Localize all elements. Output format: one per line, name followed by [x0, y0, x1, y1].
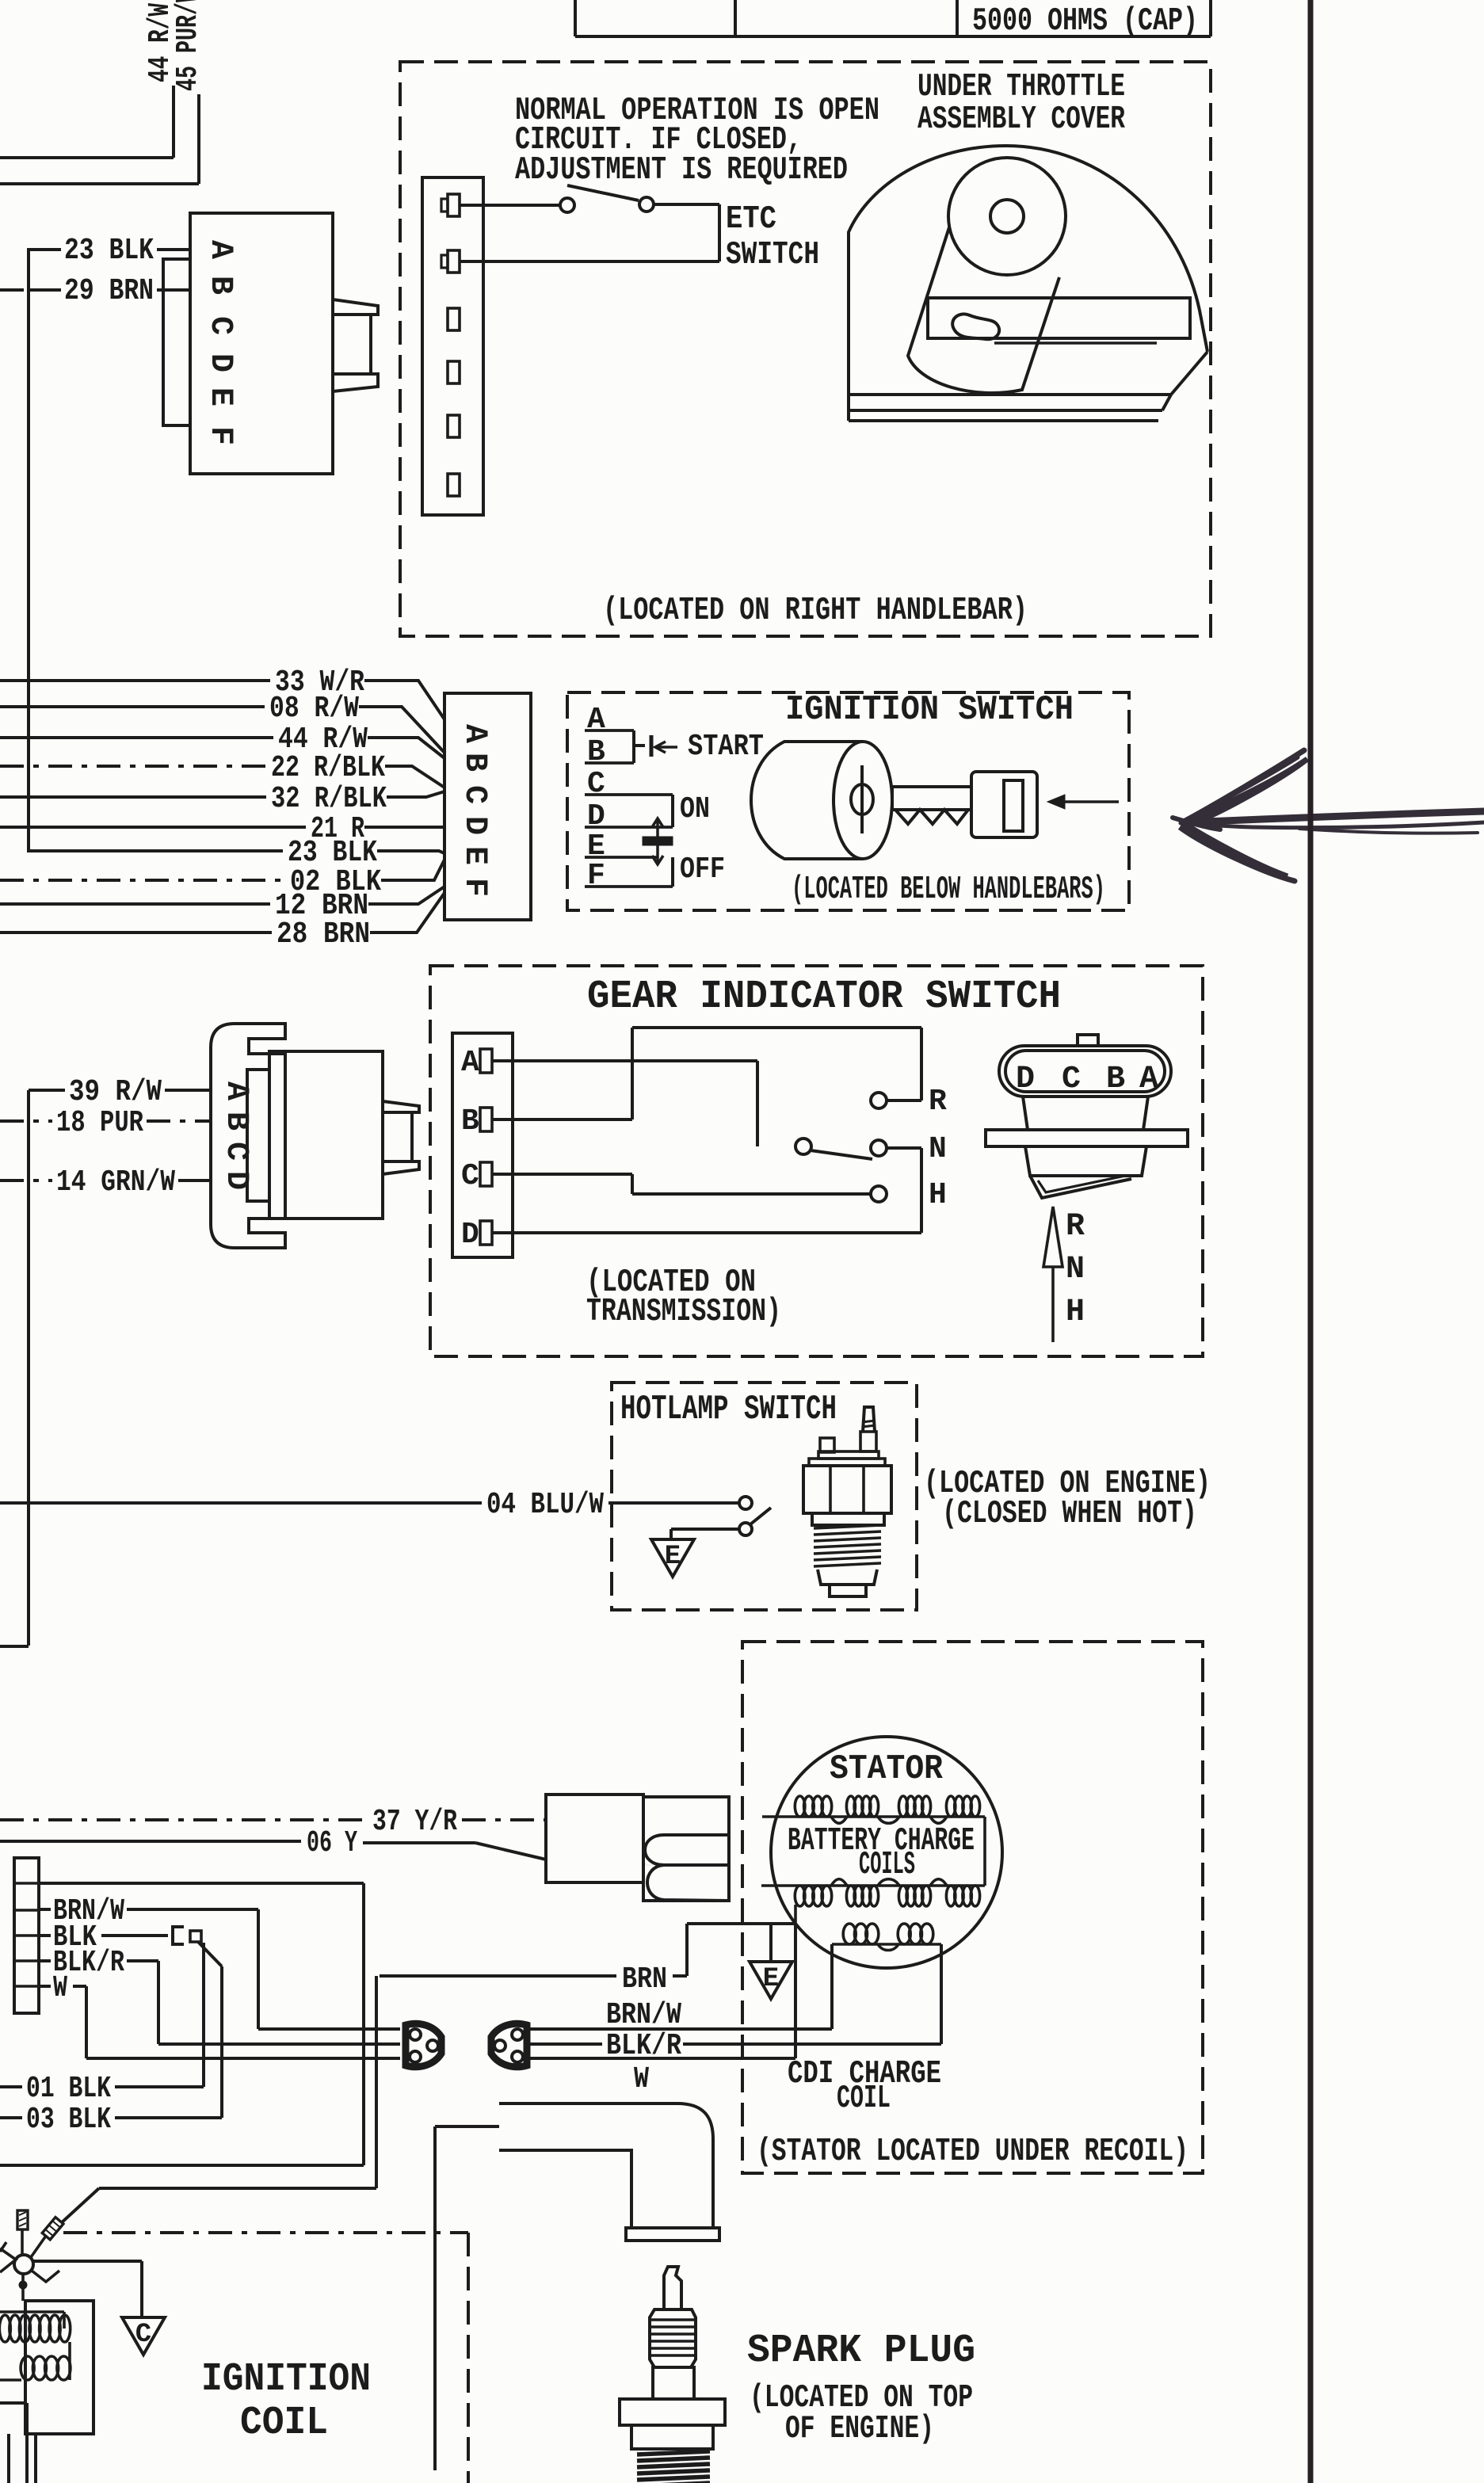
bullet upper	[645, 1835, 729, 1865]
wire N contact	[887, 1146, 921, 1150]
svg-text:B: B	[1106, 1062, 1125, 1097]
svg-text:03 BLK: 03 BLK	[26, 2103, 111, 2137]
dashed vertical boundary	[467, 2233, 470, 2483]
wire gear C vertical	[631, 1174, 634, 1194]
svg-text:18 PUR: 18 PUR	[56, 1106, 143, 1140]
svg-text:A: A	[1139, 1062, 1158, 1097]
svg-text:C: C	[461, 1159, 479, 1193]
connector J1 latch (right)	[333, 299, 378, 315]
spark plug hex	[620, 2399, 725, 2425]
3-pin connector right (thick outline)	[491, 2023, 527, 2066]
throttle slot rectangle	[928, 298, 1190, 338]
table column divider 2	[734, 0, 737, 36]
ignition contact D underline	[585, 826, 673, 829]
wire 12 BRN from left edge	[0, 902, 270, 906]
svg-text:B: B	[456, 753, 492, 772]
svg-text:SWITCH: SWITCH	[726, 237, 819, 273]
ETC switch contact circle right	[639, 197, 654, 212]
wire 29 BRN dash-dot from left edge	[0, 288, 29, 292]
ETC connector pin 4	[448, 361, 460, 383]
page edge vertical line	[1308, 0, 1314, 2483]
svg-text:04 BLU/W: 04 BLU/W	[486, 1488, 604, 1522]
gear pin C	[480, 1162, 492, 1186]
wire 03 BLK horizontal	[115, 2116, 222, 2119]
wire ETC pin1 to switch	[460, 204, 561, 207]
wire W vertical (stator)	[794, 1924, 797, 2058]
wire 06 Y slant	[475, 1843, 546, 1859]
hotlamp contact upper circle	[739, 1497, 752, 1509]
wire 32 R/BLK from left edge	[0, 795, 266, 799]
wire gear C	[492, 1173, 632, 1176]
wire gear B vertical up	[631, 1028, 634, 1119]
ETC connector pin 3	[448, 308, 460, 330]
gear connector latch	[383, 1101, 419, 1112]
gear switch pin box	[452, 1033, 513, 1257]
svg-text:37 Y/R: 37 Y/R	[372, 1805, 457, 1839]
svg-text:UNDER THROTTLE: UNDER THROTTLE	[917, 69, 1125, 105]
wire BRN/W to connector	[258, 2027, 400, 2031]
gear pin B	[480, 1108, 492, 1131]
wire BRN lower horizontal	[99, 2187, 376, 2190]
hotlamp switch blade	[750, 1508, 771, 1524]
svg-text:D: D	[1016, 1062, 1035, 1097]
sensor lower taper	[818, 1570, 877, 1585]
connector J2 body (ignition switch)	[444, 693, 531, 920]
svg-text:22 R/BLK: 22 R/BLK	[271, 751, 385, 785]
wire gear C to H	[632, 1192, 870, 1196]
wire W to stator	[527, 2057, 795, 2060]
svg-text:OF ENGINE): OF ENGINE)	[785, 2411, 934, 2447]
wire 03 BLK stub	[0, 2116, 22, 2119]
ETC switch dashed enclosure	[400, 62, 1211, 636]
wire 08 R/W from left edge	[0, 705, 265, 708]
hotlamp contact lower circle	[739, 1523, 752, 1535]
gear sensor flange	[986, 1130, 1188, 1146]
gear connector outer body	[211, 1024, 285, 1248]
gear sensor tip	[1030, 1176, 1131, 1198]
wire 32 R/BLK into connector J2	[387, 791, 444, 797]
wire 21 R into connector J2	[364, 826, 444, 829]
throttle assembly cover drawing (dome)	[849, 146, 1207, 421]
wire 44 R/W into connector J2	[368, 738, 444, 758]
ground E (hotlamp)	[651, 1539, 694, 1577]
wire 03 BLK vertical	[220, 1966, 223, 2118]
wire 28 BRN from left edge	[0, 931, 272, 934]
wire 01 BLK stub	[0, 2085, 22, 2088]
svg-text:B: B	[461, 1104, 479, 1139]
wire BRN horizontal	[380, 1974, 616, 1978]
svg-text:R: R	[929, 1085, 947, 1119]
svg-text:ADJUSTMENT IS REQUIRED: ADJUSTMENT IS REQUIRED	[515, 152, 848, 189]
throttle lever blob	[952, 314, 999, 339]
wire BRN/W horizontal	[127, 1908, 258, 1911]
winding link vertical 1	[68, 2342, 71, 2380]
cluster stub left	[0, 2242, 6, 2252]
bullet lower divider	[647, 1865, 729, 1901]
svg-text:06 Y: 06 Y	[307, 1826, 357, 1860]
svg-text:ON: ON	[680, 792, 710, 826]
key position toggle arrow	[656, 819, 659, 864]
ON bracket	[671, 795, 674, 827]
svg-text:45 PUR/W: 45 PUR/W	[171, 0, 205, 91]
svg-text:E: E	[763, 1964, 779, 1994]
wire 04 BLU/W into box	[608, 1501, 738, 1505]
loop right vertical	[362, 1883, 365, 2165]
svg-text:H: H	[929, 1178, 947, 1212]
wire BLK/R pin stub	[39, 1959, 51, 1962]
ignition coil HT cluster	[14, 2255, 33, 2274]
cluster line up	[21, 2229, 24, 2255]
ground E (stator)	[750, 1962, 792, 1999]
wire coil to ground C	[33, 2260, 142, 2263]
spark plug threads	[637, 2451, 710, 2454]
wire BRN slant to coil	[61, 2188, 99, 2223]
svg-text:5000 OHMS (CAP): 5000 OHMS (CAP)	[972, 3, 1198, 40]
svg-text:ETC: ETC	[726, 201, 776, 238]
table column divider 1 (top resistance table, cropped)	[574, 0, 577, 36]
wire ETC loop vertical	[718, 204, 721, 261]
wire BLK to inline connector	[101, 1934, 168, 1937]
svg-text:D: D	[456, 816, 492, 835]
wire gear B	[492, 1118, 632, 1121]
gear sensor oval outer	[999, 1046, 1171, 1097]
wire 29 BRN stub	[29, 288, 61, 292]
svg-text:(LOCATED BELOW HANDLEBARS): (LOCATED BELOW HANDLEBARS)	[792, 872, 1105, 908]
svg-text:01 BLK: 01 BLK	[26, 2072, 111, 2106]
gear contact R circle	[871, 1093, 887, 1108]
wire BLK pin stub	[39, 1934, 51, 1937]
3-pin connector left (thick outline)	[406, 2023, 441, 2066]
wire BRN down vertical	[375, 1976, 378, 2188]
stator circle	[771, 1737, 1002, 1968]
key teeth	[895, 810, 968, 824]
cluster slant line	[31, 2236, 46, 2257]
wire W to connector	[86, 2057, 400, 2060]
connector J1 mating tab (left)	[163, 259, 190, 425]
CDI coil left lead vertical	[830, 1944, 834, 2029]
gear pin A	[480, 1049, 492, 1073]
svg-text:H: H	[1066, 1295, 1085, 1330]
wire BLK/R horizontal	[127, 1959, 158, 1962]
table column divider 3	[956, 0, 959, 36]
ignition contact B underline	[585, 761, 634, 765]
harness bus vertical (23 BLK net)	[27, 248, 30, 852]
svg-text:STATOR: STATOR	[830, 1749, 944, 1789]
spark plug boot	[499, 2103, 713, 2228]
throttle base band	[849, 393, 1171, 396]
gear sensor upper body	[1023, 1097, 1148, 1130]
dash-dot boundary (CDI)	[63, 2231, 468, 2234]
wire 23 BLK left stub	[29, 248, 61, 251]
wire 33 W/R into connector J2	[364, 681, 444, 719]
wire 39 R/W to connector	[165, 1089, 211, 1092]
key shaft	[892, 787, 971, 810]
svg-text:START: START	[688, 730, 764, 764]
svg-text:COIL: COIL	[837, 2081, 891, 2117]
wire BLK/R vertical	[157, 1961, 160, 2044]
throttle pulley hub circle	[990, 200, 1024, 233]
wire 22 R/BLK from left edge	[0, 765, 266, 768]
arrow pointing at key	[1054, 800, 1119, 803]
sensor neck	[812, 1513, 884, 1525]
battery charge coils row 2	[761, 1884, 985, 1887]
wire from inline connector slant	[198, 1942, 222, 1966]
coil input wire	[21, 2274, 25, 2301]
bullet connector pair (stator leads)	[546, 1795, 643, 1882]
coil lower wire	[0, 2401, 27, 2405]
ETC switch contact circle left	[560, 198, 574, 212]
ignition coil primary winding	[0, 2310, 64, 2313]
svg-text:(STATOR LOCATED UNDER RECOIL): (STATOR LOCATED UNDER RECOIL)	[757, 2134, 1188, 2170]
ground C stem	[140, 2261, 143, 2317]
svg-text:F: F	[202, 426, 238, 445]
table right border	[1209, 0, 1212, 36]
svg-text:BRN/W: BRN/W	[606, 1998, 681, 2032]
svg-text:TRANSMISSION): TRANSMISSION)	[586, 1294, 781, 1330]
svg-text:29 BRN: 29 BRN	[64, 274, 154, 308]
svg-text:COIL: COIL	[240, 2401, 328, 2446]
svg-text:(LOCATED ON RIGHT HANDLEBAR): (LOCATED ON RIGHT HANDLEBAR)	[603, 593, 1028, 629]
wire gear D	[492, 1231, 921, 1234]
svg-text:08 R/W: 08 R/W	[269, 692, 359, 726]
wire BLK/R left part	[527, 2042, 602, 2046]
gear contact N left circle	[795, 1139, 811, 1154]
throttle pulley outer circle	[948, 158, 1066, 275]
wire 02 BLK into connector J2	[381, 860, 444, 880]
wire BRN stub to vertical	[673, 1974, 687, 1978]
HT lead vertical	[433, 2126, 437, 2470]
wire W horizontal	[73, 1985, 86, 1988]
wire R contact	[887, 1099, 921, 1102]
throttle base line upper	[994, 341, 1157, 345]
wire 23 BLK from harness bus	[29, 849, 283, 852]
sensor hex body	[803, 1466, 891, 1513]
svg-text:D: D	[202, 353, 238, 372]
svg-text:A: A	[202, 240, 238, 259]
wire 08 R/W into connector J2	[359, 707, 444, 753]
wire 14 GRN/W dash from edge	[0, 1179, 52, 1182]
svg-text:OFF: OFF	[680, 852, 725, 887]
wire 06 Y	[0, 1840, 301, 1843]
wire CDI top to loop	[39, 1882, 364, 1885]
ETC connector pin 2	[448, 250, 460, 273]
wire 23 BLK to J1 pin A	[157, 248, 190, 251]
svg-text:IGNITION: IGNITION	[201, 2357, 371, 2402]
wire BLK/R right part	[683, 2042, 941, 2046]
HT lead to boot	[435, 2125, 499, 2128]
svg-text:N: N	[1066, 1252, 1085, 1287]
svg-text:BRN: BRN	[622, 1962, 667, 1997]
gear sensor top tab	[1078, 1035, 1098, 1046]
ignition coil secondary winding	[0, 2378, 21, 2382]
wire hotlamp to ground	[671, 1528, 739, 1531]
spark plug body	[653, 2367, 694, 2399]
spark plug terminal tip	[664, 2267, 681, 2309]
table bottom border	[575, 35, 1211, 38]
wire 22 R/BLK into connector J2	[385, 766, 444, 788]
coil lead down 3	[34, 2434, 37, 2483]
gear switch blade	[811, 1150, 872, 1159]
connector J1 body (A-F)	[190, 213, 333, 474]
inline connector (BLK)	[173, 1927, 184, 1944]
wire 18 PUR dash-dot to connector	[147, 1119, 211, 1123]
gear indicator switch dashed enclosure	[430, 966, 1203, 1356]
wire 37 Y/R dash-dot	[0, 1818, 366, 1821]
sensor tip	[830, 1585, 866, 1596]
gear sensor oval inner	[1005, 1051, 1165, 1092]
ETC connector pin 5	[448, 415, 460, 437]
CDI coil right lead vertical	[940, 1944, 943, 2044]
svg-text:E: E	[665, 1542, 681, 1572]
svg-text:D: D	[461, 1218, 479, 1252]
stator dashed enclosure	[742, 1642, 1203, 2173]
svg-text:IGNITION SWITCH: IGNITION SWITCH	[785, 690, 1074, 730]
wire 45 PUR/W vertical	[197, 94, 200, 184]
gear pin D	[480, 1221, 492, 1245]
throttle cable drum (tilted cylinder)	[908, 227, 1059, 393]
wire W vertical	[85, 1986, 88, 2058]
ground C (ignition coil)	[122, 2317, 165, 2355]
wire 44 R/W from left edge	[0, 736, 273, 739]
wire gear A	[492, 1059, 757, 1062]
svg-text:E: E	[202, 387, 238, 406]
cluster V bracket	[0, 2248, 16, 2272]
ETC connector body	[422, 177, 483, 515]
svg-text:ASSEMBLY COVER: ASSEMBLY COVER	[917, 101, 1125, 138]
svg-text:GEAR INDICATOR SWITCH: GEAR INDICATOR SWITCH	[587, 975, 1061, 1020]
ETC switch blade (open)	[567, 185, 639, 200]
row2 left drop	[794, 1905, 797, 1924]
svg-text:N: N	[929, 1132, 947, 1166]
svg-text:HOTLAMP SWITCH: HOTLAMP SWITCH	[620, 1390, 837, 1429]
ground stem	[670, 1529, 673, 1539]
wire 06 Y continue	[363, 1841, 475, 1844]
key head	[971, 772, 1037, 837]
junction dot	[19, 2281, 27, 2289]
ignition contact F underline	[585, 885, 673, 888]
wire gear top horizontal	[632, 1026, 921, 1029]
wire 28 BRN into connector J2	[370, 893, 444, 933]
svg-text:A: A	[461, 1046, 479, 1080]
sensor threads	[814, 1525, 881, 1528]
wire BRN/W vertical	[257, 1909, 260, 2029]
wire W pin stub	[39, 1985, 51, 1988]
gear position arrow (R N H)	[1051, 1267, 1055, 1342]
harness bus vertical (left, lower)	[27, 1090, 30, 1646]
gear contact N right circle	[871, 1140, 887, 1156]
ground stem (stator)	[769, 1924, 773, 1962]
wire switch to right elbow	[654, 203, 719, 206]
wire BRN/W pin stub	[39, 1908, 51, 1911]
wire 29 BRN to J1 pin B	[157, 288, 190, 292]
boot base flange	[626, 2228, 719, 2241]
battery charge coils row 1	[762, 1815, 985, 1818]
ETC connector pin 1	[448, 194, 460, 216]
wire 21 R from left edge	[0, 826, 306, 829]
ignition contact A underline	[585, 729, 634, 732]
hotlamp temperature sensor	[863, 1407, 875, 1432]
svg-text:C: C	[456, 785, 492, 804]
ETC connector pin 6	[448, 474, 460, 496]
stator return wire	[687, 1922, 795, 1925]
wire BLK/R to connector	[158, 2042, 400, 2046]
wire 04 BLU/W from left edge	[0, 1501, 482, 1505]
svg-text:C: C	[1062, 1062, 1081, 1097]
wire 18 PUR dash-dot	[0, 1119, 52, 1123]
key head slot	[1004, 780, 1023, 831]
wire 02 BLK from left edge	[0, 879, 285, 882]
loop bottom horizontal	[0, 2164, 364, 2167]
ignition switch dashed enclosure	[567, 692, 1129, 910]
svg-text:23 BLK: 23 BLK	[64, 234, 154, 268]
wire gear down to R	[920, 1028, 923, 1100]
key cylinder body	[751, 742, 863, 859]
CDI charge coil	[832, 1943, 941, 1946]
hand-drawn pen arrow (annotation)	[1186, 811, 1484, 822]
ignition coil box	[25, 2301, 93, 2434]
gear connector main block	[269, 1051, 383, 1219]
wire 01 BLK horizontal	[115, 2085, 204, 2088]
wire ETC pin2 return	[460, 260, 719, 263]
svg-text:C: C	[135, 2320, 151, 2350]
START arrow	[655, 746, 677, 749]
toggle thick bar	[643, 837, 673, 845]
ignition contact E underline	[585, 856, 658, 859]
wire gear A vertical	[756, 1061, 759, 1146]
wire 12 BRN into connector J2	[368, 887, 444, 904]
gear contact H circle	[871, 1186, 887, 1202]
harness bus exit left	[0, 1645, 29, 1648]
hotlamp switch dashed enclosure	[612, 1383, 917, 1610]
svg-text:E: E	[456, 846, 492, 865]
keyhole	[851, 784, 873, 814]
wire 44 R/W vertical	[172, 86, 175, 158]
svg-text:W: W	[634, 2062, 649, 2096]
svg-text:A: A	[456, 724, 492, 743]
keyhole slot line	[860, 765, 864, 833]
gear connector middle tab	[247, 1070, 269, 1201]
wire 14 GRN/W to connector	[178, 1179, 211, 1182]
spark plug insulator ribs	[650, 2309, 696, 2367]
spark plug shell	[631, 2425, 713, 2449]
CDI module connector (left edge)	[14, 1858, 39, 2013]
svg-text:B: B	[202, 276, 238, 295]
wire N to D vertical	[920, 1148, 923, 1233]
svg-text:14 GRN/W: 14 GRN/W	[56, 1165, 175, 1200]
svg-text:SPARK PLUG: SPARK PLUG	[747, 2329, 975, 2374]
START contact bracket	[632, 730, 635, 763]
svg-text:C: C	[202, 316, 238, 335]
key cylinder face ellipse	[834, 742, 892, 859]
svg-text:32 R/BLK: 32 R/BLK	[271, 782, 387, 816]
wire 45 PUR/W horizontal to left edge	[0, 182, 199, 185]
gear sensor lower body	[1025, 1146, 1146, 1176]
svg-text:F: F	[456, 878, 492, 897]
coil lead down 2	[7, 2434, 10, 2483]
svg-text:(CLOSED WHEN HOT): (CLOSED WHEN HOT)	[942, 1496, 1197, 1532]
svg-text:28 BRN: 28 BRN	[277, 917, 370, 952]
wire BRN/W to CDI coil	[527, 2027, 832, 2031]
wire 44 R/W horizontal to left edge	[0, 156, 174, 159]
wire 39 R/W stub	[29, 1089, 65, 1092]
svg-text:R: R	[1066, 1209, 1085, 1245]
wire 37 Y/R dash-dot to connector	[462, 1818, 546, 1821]
wire 33 W/R from left edge	[0, 679, 270, 682]
wire BRN vertical	[685, 1924, 689, 1976]
ignition contact C underline	[585, 793, 673, 796]
stator right bracket	[983, 1817, 986, 1886]
svg-text:W: W	[53, 1971, 67, 2005]
